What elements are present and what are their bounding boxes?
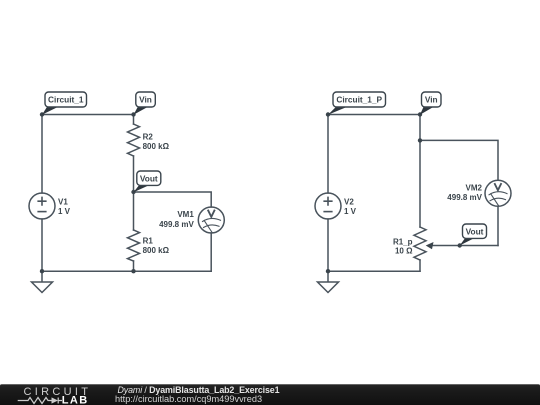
svg-text:800 kΩ: 800 kΩ — [143, 246, 170, 255]
svg-text:Vout: Vout — [140, 174, 158, 184]
svg-text:Vin: Vin — [139, 95, 152, 105]
svg-text:1 V: 1 V — [58, 207, 71, 216]
svg-text:1 V: 1 V — [344, 207, 357, 216]
svg-text:Circuit_1: Circuit_1 — [48, 95, 84, 105]
svg-text:V2: V2 — [344, 198, 354, 207]
svg-text:499.8 mV: 499.8 mV — [447, 193, 482, 202]
svg-text:R1: R1 — [143, 237, 154, 246]
svg-text:VM1: VM1 — [177, 210, 194, 219]
svg-text:10 Ω: 10 Ω — [395, 247, 413, 256]
svg-text:R2: R2 — [143, 132, 154, 141]
svg-text:VM2: VM2 — [466, 184, 483, 193]
svg-text:V1: V1 — [58, 198, 68, 207]
svg-text:LAB: LAB — [62, 394, 89, 405]
svg-text:800 kΩ: 800 kΩ — [143, 142, 170, 151]
svg-text:R1_p: R1_p — [393, 237, 413, 246]
svg-text:Vin: Vin — [425, 95, 438, 105]
svg-text:499.8 mV: 499.8 mV — [159, 220, 194, 229]
svg-text:Vout: Vout — [466, 227, 484, 237]
svg-text:Circuit_1_P: Circuit_1_P — [336, 95, 382, 105]
